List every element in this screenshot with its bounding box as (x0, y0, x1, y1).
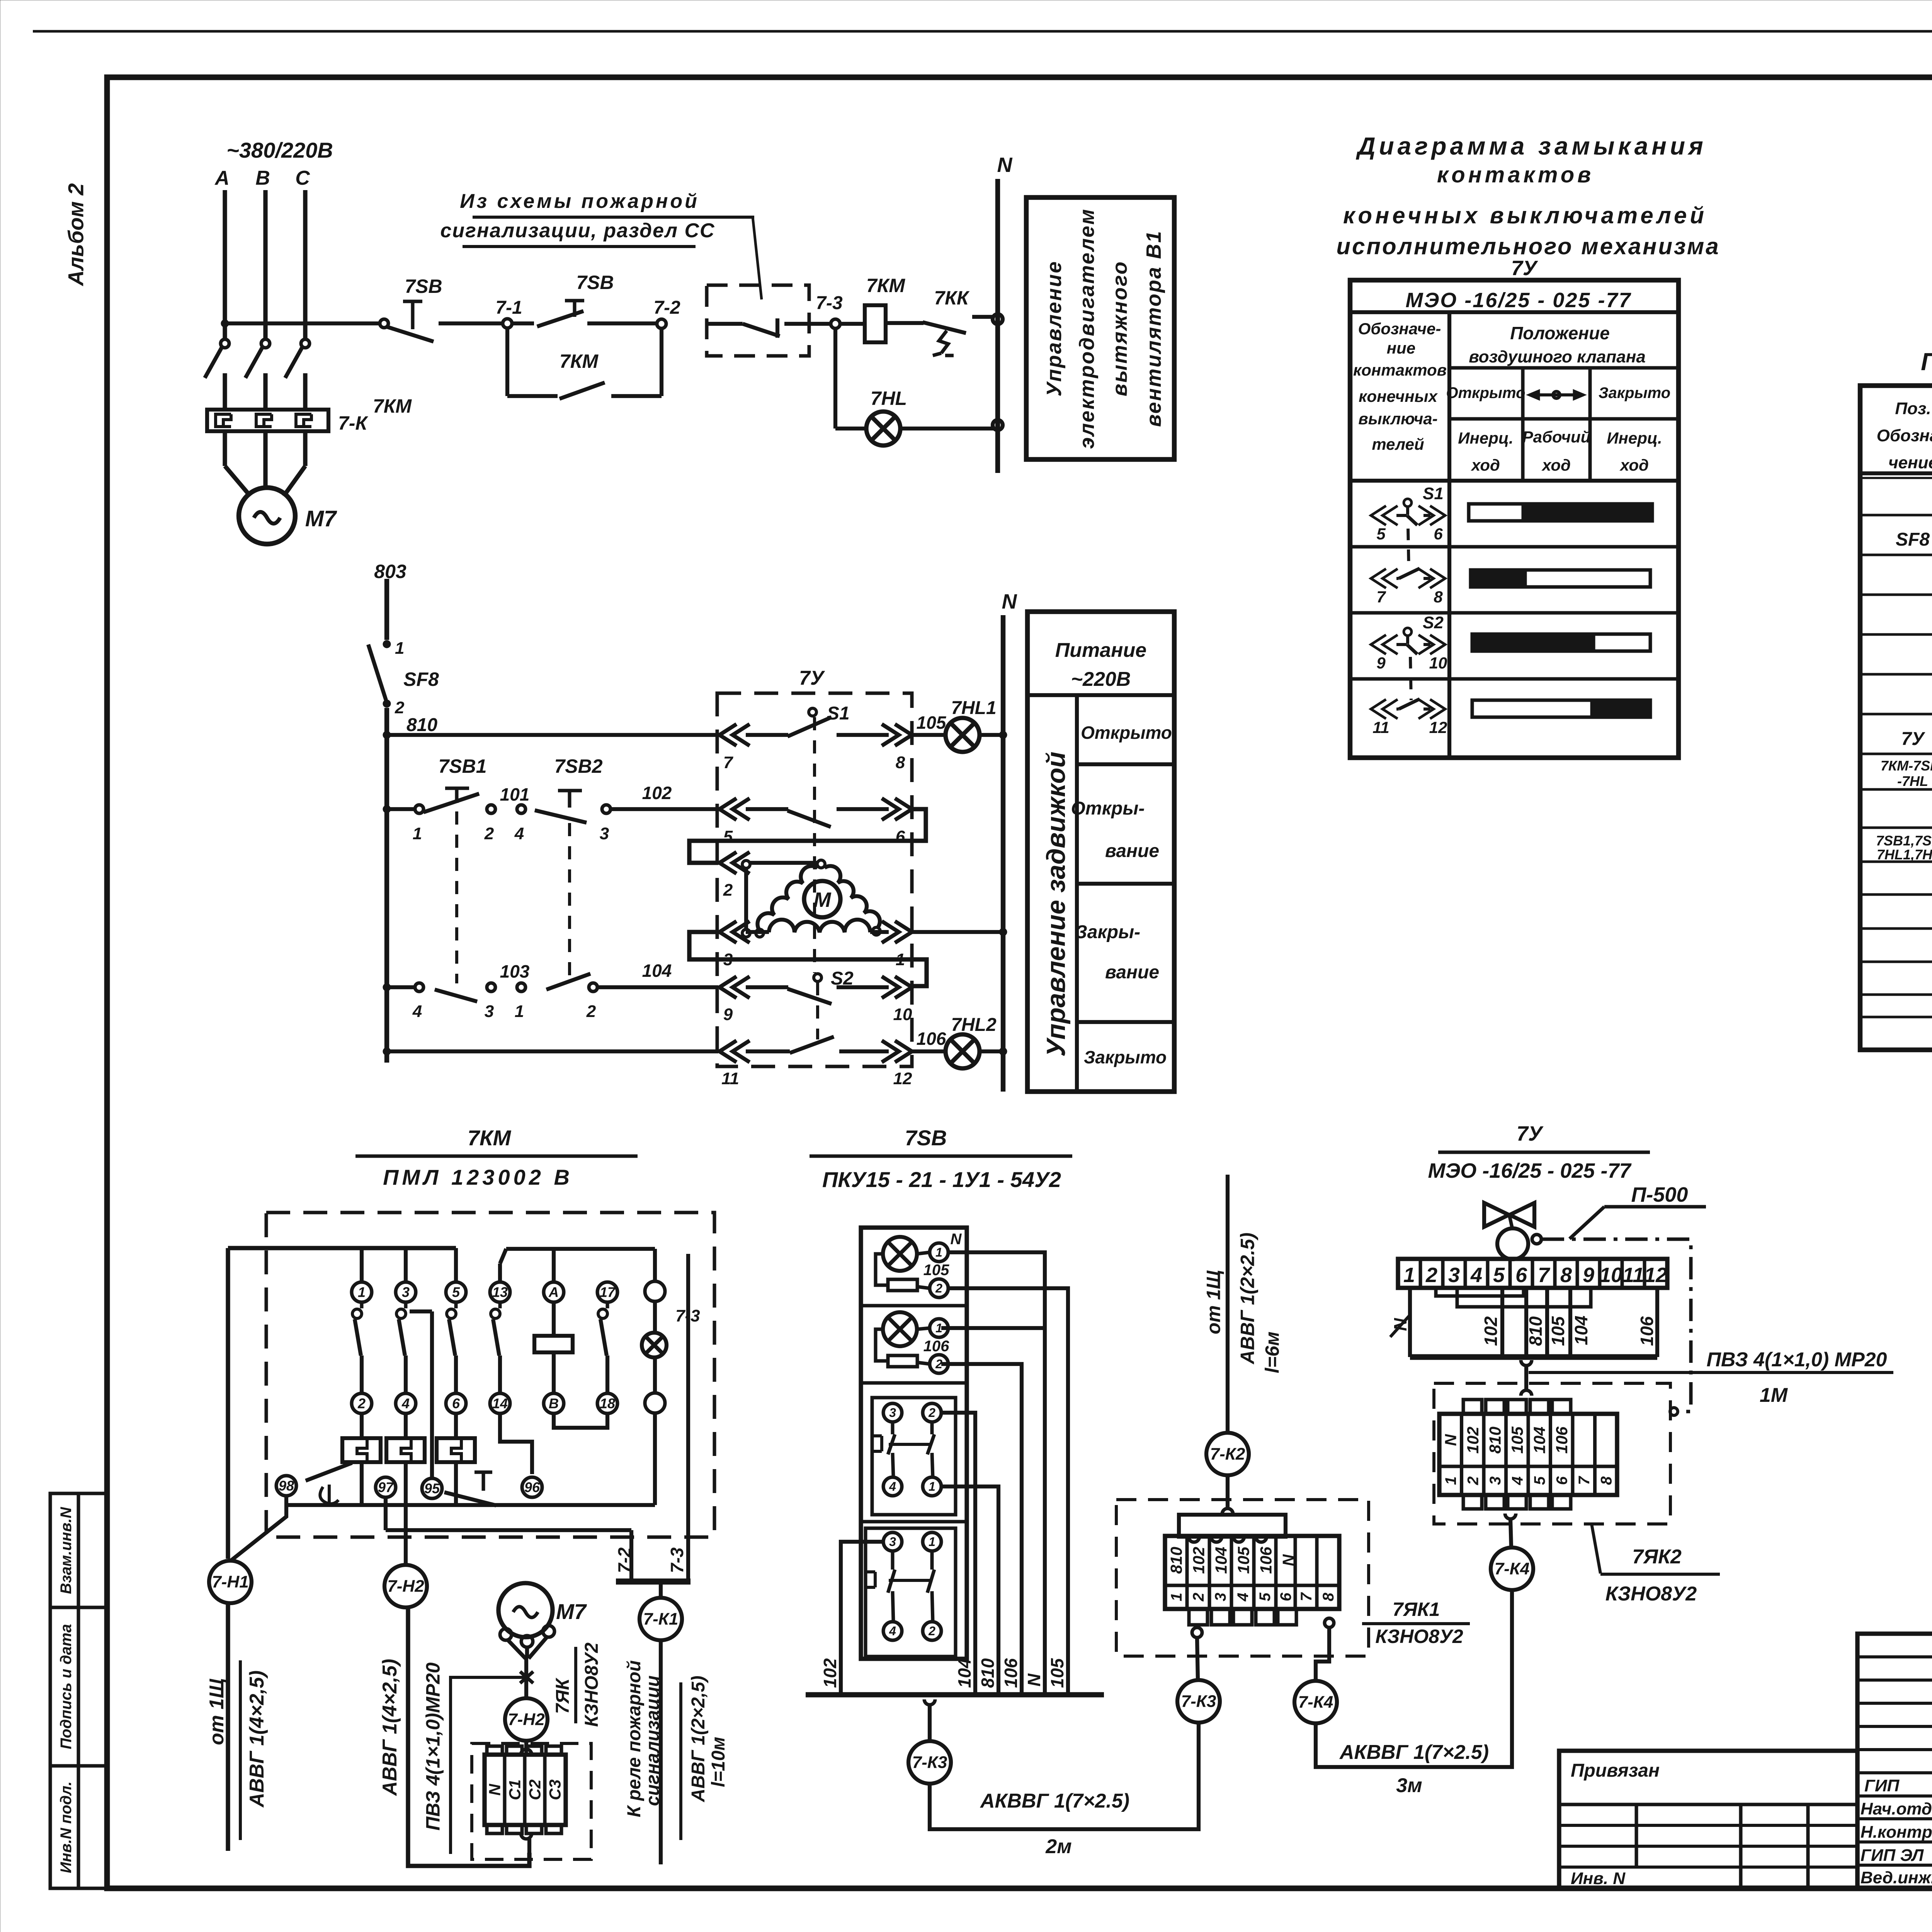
cable label PV3 MP20 (1529, 1349, 1893, 1406)
left margin stamp boxes (50, 1493, 107, 1888)
svg-text:3: 3 (1212, 1593, 1229, 1601)
terminal box 7YAK dashed (472, 1743, 591, 1859)
svg-text:С: С (295, 167, 310, 189)
svg-text:2: 2 (935, 1281, 942, 1295)
svg-text:Поз.: Поз. (1895, 399, 1931, 418)
svg-text:4: 4 (401, 1396, 410, 1412)
svg-text:электродвигателем: электродвигателем (1075, 208, 1099, 449)
wire 7-3 drop (667, 1254, 688, 1582)
svg-text:7КМ: 7КМ (373, 395, 412, 417)
svg-text:4: 4 (889, 1480, 896, 1493)
svg-text:104: 104 (642, 961, 672, 981)
label 7SB first (405, 276, 442, 297)
cable label PV3 (422, 1662, 527, 1854)
terminal 4 (514, 805, 526, 843)
svg-text:-7HL: -7HL (1897, 773, 1928, 789)
cable 7-K3 run (930, 1723, 1199, 1829)
svg-text:1М: 1М (1760, 1384, 1788, 1406)
svg-text:7SB1,7SB2: 7SB1,7SB2 (1876, 833, 1932, 849)
node row4 (383, 983, 391, 991)
svg-text:7КМ: 7КМ (468, 1126, 512, 1150)
svg-text:2: 2 (484, 824, 494, 843)
label 102 (642, 783, 672, 803)
svg-text:1: 1 (935, 1245, 942, 1259)
svg-text:106: 106 (917, 1029, 946, 1049)
node row5 (383, 1048, 391, 1055)
svg-text:АВВГ 1(4×2,5): АВВГ 1(4×2,5) (379, 1659, 401, 1796)
wire 102 drop (820, 1542, 883, 1695)
svg-text:ГИП: ГИП (1864, 1776, 1900, 1795)
cable marker 7-K3 (908, 1741, 951, 1784)
cable marker 7-K4 right (1491, 1548, 1533, 1590)
svg-text:7: 7 (1538, 1264, 1551, 1287)
wire 7-K1 branch (659, 1582, 663, 1598)
wire 104 drop (941, 1413, 975, 1695)
parts table header (1860, 399, 1932, 478)
svg-text:КЗНО8У2: КЗНО8У2 (1605, 1583, 1697, 1605)
terminal 2 (484, 805, 495, 843)
MEO bar row2 (1471, 570, 1650, 587)
svg-text:4: 4 (412, 1002, 422, 1021)
aux contact 7SB2 row4 (515, 961, 718, 1021)
wire 7-N1 down (226, 1604, 230, 1851)
svg-text:6: 6 (452, 1396, 460, 1412)
svg-text:3: 3 (402, 1284, 410, 1300)
svg-text:7ЯК2: 7ЯК2 (1632, 1546, 1682, 1568)
terminal arrows 2 (719, 852, 750, 900)
svg-text:1: 1 (929, 1535, 935, 1549)
wire control to 7SB (225, 321, 380, 325)
svg-text:6: 6 (1515, 1264, 1527, 1287)
svg-text:3: 3 (600, 824, 609, 843)
lamp 7HL2 (946, 1015, 997, 1068)
svg-text:Привязан: Привязан (1571, 1760, 1660, 1781)
motor M7 detail (498, 1583, 587, 1698)
svg-text:810: 810 (978, 1658, 998, 1688)
node row2 (383, 805, 391, 813)
cable label AVVG 7-N2 (379, 1659, 401, 1796)
svg-text:сигнализации, раздел СС: сигнализации, раздел СС (440, 219, 715, 242)
wire 7YAK1 right exit (1316, 1618, 1334, 1680)
mech link S1-S2 dashed (813, 717, 816, 973)
box fan control annotation (1026, 197, 1174, 459)
MEO row dividers (1350, 547, 1679, 679)
svg-text:К реле пожарной: К реле пожарной (624, 1660, 645, 1817)
svg-text:7HL1: 7HL1 (951, 698, 996, 718)
MEO right head text (1449, 323, 1679, 368)
svg-text:Подпись и дата: Подпись и дата (58, 1624, 75, 1749)
svg-text:7SB: 7SB (405, 276, 442, 297)
phase labels A B C (214, 167, 310, 189)
svg-text:SF8: SF8 (403, 668, 439, 690)
node 7-3 (816, 293, 843, 328)
svg-text:l=10м: l=10м (708, 1737, 729, 1787)
label 7KM starter (355, 1126, 638, 1189)
svg-text:11: 11 (1372, 718, 1389, 736)
starter pole 5 (446, 1282, 466, 1393)
svg-text:2: 2 (928, 1406, 935, 1420)
svg-text:104: 104 (954, 1658, 975, 1688)
svg-text:ГИП ЭЛ: ГИП ЭЛ (1861, 1846, 1924, 1865)
svg-text:106: 106 (923, 1338, 949, 1355)
svg-text:7-Н2: 7-Н2 (387, 1577, 424, 1596)
contact block upper (872, 1398, 956, 1515)
svg-text:~380/220В: ~380/220В (226, 138, 333, 162)
svg-text:1: 1 (1168, 1593, 1185, 1601)
svg-text:5: 5 (1493, 1264, 1505, 1287)
lamp 7HL1 (946, 698, 997, 752)
svg-text:ПВЗ 4(1×1,0)МР20: ПВЗ 4(1×1,0)МР20 (422, 1662, 444, 1830)
svg-text:конечных выключателей: конечных выключателей (1343, 202, 1707, 228)
wire 810 strip (1526, 1288, 1546, 1357)
svg-text:7SB1: 7SB1 (438, 755, 486, 777)
svg-text:Взам.инв.N: Взам.инв.N (58, 1507, 75, 1594)
cable label AKVVG 3m (1339, 1741, 1489, 1797)
terminal A (544, 1282, 564, 1302)
svg-text:102: 102 (1190, 1547, 1208, 1574)
svg-text:2: 2 (1465, 1476, 1482, 1485)
svg-text:Открыто: Открыто (1081, 723, 1172, 743)
svg-text:4: 4 (514, 824, 524, 843)
svg-text:101: 101 (500, 784, 530, 804)
svg-text:А: А (214, 167, 230, 189)
svg-text:5: 5 (1531, 1476, 1548, 1485)
svg-text:С2: С2 (526, 1779, 544, 1800)
svg-text:105: 105 (1235, 1546, 1253, 1574)
wire ot 1Shch (1226, 1175, 1230, 1432)
lamp cell 106 (876, 1312, 949, 1373)
svg-text:7SB: 7SB (905, 1126, 947, 1150)
cable break mark (520, 1672, 533, 1683)
svg-text:ПМЛ 123002 В: ПМЛ 123002 В (383, 1165, 573, 1189)
svg-text:96: 96 (524, 1480, 540, 1495)
svg-text:вытяжного: вытяжного (1108, 260, 1131, 396)
svg-text:ПКУ15 - 21 - 1У1 - 54У2: ПКУ15 - 21 - 1У1 - 54У2 (822, 1167, 1061, 1192)
button 7SB2 (535, 755, 611, 843)
svg-text:6: 6 (1277, 1592, 1294, 1601)
svg-text:95: 95 (424, 1481, 440, 1497)
svg-text:2: 2 (357, 1396, 366, 1412)
svg-text:АВВГ 1(4×2,5): АВВГ 1(4×2,5) (246, 1670, 268, 1808)
wire 106 lamp (912, 1029, 946, 1051)
svg-text:102: 102 (1481, 1316, 1501, 1346)
MEO mech link S1 dashed (1408, 529, 1409, 570)
svg-text:М7: М7 (556, 1599, 587, 1624)
svg-text:Инерц.: Инерц. (1607, 429, 1662, 447)
cable marker 7-K3 second (1177, 1680, 1220, 1723)
parts table frame (1860, 386, 1932, 1050)
album label (64, 183, 88, 287)
label 7-K (338, 412, 368, 434)
terminal 17 (597, 1282, 617, 1393)
svg-text:9: 9 (1376, 654, 1386, 672)
MEO bar row1 (1469, 504, 1652, 521)
svg-text:1: 1 (929, 1480, 935, 1493)
svg-text:803: 803 (374, 561, 406, 582)
wire phase C (303, 190, 307, 339)
aux contact 7SB1 row4 (387, 961, 530, 1021)
svg-text:Нач.отд.: Нач.отд. (1861, 1799, 1932, 1818)
svg-text:106: 106 (1553, 1426, 1571, 1454)
label 7YAK (553, 1643, 602, 1727)
svg-text:1: 1 (515, 1002, 524, 1021)
svg-text:1: 1 (395, 639, 404, 658)
parts table row lines (1860, 515, 1932, 1017)
svg-text:7У: 7У (1901, 729, 1925, 749)
svg-text:7: 7 (1576, 1476, 1593, 1485)
svg-text:12: 12 (1644, 1264, 1667, 1287)
svg-text:Закрыто: Закрыто (1599, 384, 1670, 401)
terminal arrows 8 (882, 724, 912, 772)
svg-text:3м: 3м (1396, 1774, 1422, 1797)
cable label ot 1Shch (206, 1660, 268, 1840)
terminal arrows 5 (719, 798, 750, 846)
lamp 7HL (866, 388, 907, 446)
svg-text:102: 102 (642, 783, 672, 803)
svg-text:4: 4 (1235, 1593, 1252, 1602)
svg-text:ход: ход (1541, 456, 1571, 474)
starter pole 1 (352, 1282, 372, 1393)
wire to N (980, 731, 1007, 739)
terminal 18 (597, 1393, 617, 1413)
svg-text:Инв.N подл.: Инв.N подл. (58, 1781, 75, 1873)
fire alarm contact dashed box (707, 285, 831, 356)
box power supply annotation (1027, 612, 1174, 1092)
MEO column divider (1447, 312, 1451, 758)
node 7-2 (653, 298, 680, 328)
leader line to fire contact (753, 217, 762, 299)
svg-text:вание: вание (1105, 841, 1159, 861)
wire phase A (223, 190, 227, 339)
MEO header (1350, 289, 1679, 312)
MEO table frame (1350, 280, 1679, 758)
wire row2 to box (611, 807, 718, 811)
supply label ~380/220V (226, 138, 333, 162)
box 7YAK2 dashed (1434, 1383, 1670, 1524)
svg-text:106: 106 (1257, 1546, 1275, 1574)
svg-text:П-500: П-500 (1631, 1183, 1688, 1206)
lamp cell 105 (876, 1231, 962, 1298)
svg-text:SF8: SF8 (1896, 529, 1930, 550)
svg-text:7-1: 7-1 (495, 298, 522, 318)
svg-text:103: 103 (500, 961, 530, 981)
svg-text:S1: S1 (827, 703, 850, 724)
svg-text:КЗНО8У2: КЗНО8У2 (1375, 1626, 1463, 1647)
svg-text:С3: С3 (546, 1779, 564, 1800)
wire 95 riser (410, 1311, 432, 1478)
svg-text:14: 14 (492, 1396, 508, 1412)
svg-text:вентилятора В1: вентилятора В1 (1142, 230, 1165, 427)
motor M circle (804, 881, 840, 917)
svg-text:7-К: 7-К (338, 412, 368, 434)
wire 105 to lamp (912, 713, 947, 735)
svg-text:3: 3 (485, 1002, 494, 1021)
contactor coil 7KM (840, 275, 923, 342)
svg-text:7У: 7У (1511, 257, 1538, 280)
motor M7 (239, 488, 337, 544)
wire bottom link L1 (286, 1413, 655, 1505)
row 7U (1901, 721, 1932, 754)
aux contact 98-97 (276, 1463, 396, 1504)
svg-text:l=6м: l=6м (1262, 1332, 1283, 1373)
node 810 (383, 731, 391, 739)
MEO subcells open-close (1446, 368, 1679, 481)
terminal strip 12 (1398, 1259, 1667, 1288)
thermal relay 7-K box (207, 410, 328, 431)
svg-text:3: 3 (889, 1406, 896, 1420)
wire 7-K3 to box (1192, 1628, 1202, 1680)
svg-text:S1: S1 (1423, 484, 1444, 503)
valve symbol (1484, 1203, 1541, 1259)
svg-text:ние: ние (1387, 339, 1415, 357)
self-hold contact 7KM branch (507, 328, 662, 399)
wire 105 drop (948, 1288, 1068, 1695)
wire 7-N2 down (408, 1607, 529, 1866)
MEO contact S2 9-10 (1371, 613, 1447, 672)
button 7SB first (NC) (380, 301, 503, 342)
svg-text:9: 9 (1583, 1264, 1594, 1287)
mech link 7SB2 dashed (568, 823, 571, 981)
limit switch S2 (746, 968, 889, 1004)
svg-text:N: N (1279, 1554, 1298, 1566)
svg-text:МЭО -16/25 - 025 -77: МЭО -16/25 - 025 -77 (1405, 289, 1631, 312)
svg-text:6: 6 (896, 827, 905, 846)
wire 7-3 to lamp (835, 328, 866, 429)
svg-text:7У: 7У (799, 667, 825, 689)
wire top bus left (228, 1248, 456, 1559)
svg-text:3: 3 (1448, 1264, 1460, 1287)
jumper 3 to 10 (689, 932, 927, 986)
label 7U detail (1428, 1122, 1650, 1182)
svg-text:Обозначе-: Обозначе- (1358, 320, 1441, 338)
svg-text:Вед.инж.: Вед.инж. (1861, 1868, 1932, 1887)
svg-text:7-К1: 7-К1 (643, 1610, 679, 1629)
svg-text:2: 2 (1190, 1593, 1207, 1602)
strip jumper 3-9 (1457, 1288, 1591, 1307)
svg-text:3: 3 (889, 1535, 896, 1549)
wire N strip (1390, 1288, 1410, 1357)
limit switch S1 (746, 703, 889, 736)
svg-text:7-3: 7-3 (667, 1547, 687, 1573)
svg-text:Управление: Управление (1043, 260, 1066, 396)
svg-text:7: 7 (1376, 588, 1386, 606)
bus bar post (806, 1692, 1104, 1697)
svg-text:N: N (951, 1231, 962, 1248)
motor M winding delta (756, 860, 880, 937)
wire bus 803 lower (384, 708, 389, 1063)
svg-text:8: 8 (1434, 588, 1443, 606)
svg-text:7-К2: 7-К2 (1210, 1445, 1245, 1464)
svg-text:N: N (1024, 1673, 1044, 1687)
cable dash-dot P500 (1542, 1239, 1691, 1415)
wire bus to 7YAK2 (1521, 1360, 1532, 1391)
wire 106 strip (1637, 1288, 1657, 1357)
svg-text:АВВГ 1(2×2.5): АВВГ 1(2×2.5) (1237, 1233, 1259, 1365)
svg-text:2м: 2м (1045, 1835, 1071, 1858)
svg-text:А: А (548, 1284, 559, 1300)
svg-text:12: 12 (1429, 718, 1447, 736)
button 7SB1 (413, 755, 487, 843)
svg-text:N: N (1442, 1434, 1460, 1446)
MEO contact 7-8 (1371, 568, 1445, 606)
svg-text:В: В (549, 1396, 559, 1412)
terminal arrows 7 (719, 724, 750, 772)
svg-text:2: 2 (928, 1624, 935, 1638)
aux contact 95-96 (422, 1472, 542, 1505)
note from fire alarm line2 (440, 219, 715, 247)
svg-text:8: 8 (1560, 1264, 1572, 1287)
label 7SB post (810, 1126, 1072, 1192)
starter pole 13 (490, 1282, 510, 1393)
label 7YAK1 (1362, 1599, 1470, 1647)
wire drops to poles (362, 1248, 456, 1282)
svg-text:2: 2 (586, 1002, 596, 1021)
svg-text:106: 106 (1637, 1316, 1657, 1346)
svg-text:2: 2 (723, 881, 733, 900)
wire phase B (263, 190, 267, 339)
svg-text:10: 10 (1429, 654, 1447, 672)
svg-text:5: 5 (1257, 1592, 1274, 1601)
svg-text:Обозна -: Обозна - (1877, 426, 1932, 445)
svg-text:Открыто: Открыто (1446, 384, 1525, 401)
coil 7KM rect (534, 1302, 573, 1393)
svg-text:чение: чение (1888, 453, 1932, 472)
svg-text:5: 5 (1376, 525, 1386, 543)
strip jumper 2-6 (1436, 1288, 1524, 1296)
svg-text:1: 1 (1442, 1476, 1459, 1485)
wire 7-K1 down (659, 1640, 663, 1864)
wire top bus right (500, 1249, 655, 1282)
mech link S2 dashed (816, 982, 819, 1039)
wire pole4 to 7-N2 (404, 1462, 408, 1565)
svg-text:4: 4 (1470, 1264, 1482, 1287)
jumper 6 to 2 (689, 809, 926, 863)
wire row 810 (387, 733, 718, 737)
node on N bus top (993, 314, 1003, 324)
svg-text:7-Н2: 7-Н2 (508, 1710, 545, 1729)
MEO left head text (1353, 320, 1447, 453)
svg-text:18: 18 (600, 1396, 615, 1412)
wire 102 strip (1481, 1288, 1502, 1357)
wire N bus mid section (1002, 590, 1017, 1092)
cable marker 7-K2 (1206, 1433, 1249, 1475)
wire 105 strip (1547, 1288, 1568, 1357)
label 7KM main (373, 395, 412, 417)
border trim top line (33, 30, 1932, 33)
wire lamp to N (900, 420, 1003, 430)
svg-text:810: 810 (1486, 1427, 1504, 1454)
wire 7-2 drop (614, 1530, 634, 1582)
svg-text:от 1Щ: от 1Щ (1203, 1270, 1225, 1334)
svg-text:6: 6 (1554, 1476, 1571, 1485)
strip bus (1410, 1354, 1657, 1360)
MEO bar row3 (1472, 634, 1650, 651)
svg-text:6: 6 (1434, 525, 1443, 543)
svg-text:Питание: Питание (1055, 639, 1146, 662)
svg-text:7HL: 7HL (871, 388, 907, 409)
terminal arrows 9 (719, 976, 750, 1024)
svg-text:17: 17 (600, 1284, 616, 1300)
terminal circle 7-3 top (645, 1281, 700, 1325)
svg-text:105: 105 (1508, 1426, 1526, 1454)
svg-text:1: 1 (1403, 1264, 1415, 1287)
svg-text:11: 11 (721, 1069, 739, 1088)
wire 98 to 7-N1 (230, 1497, 286, 1561)
svg-text:ПВЗ 4(1×1,0) МР20: ПВЗ 4(1×1,0) МР20 (1707, 1349, 1887, 1371)
wire 810 drop (941, 1486, 998, 1695)
svg-text:11: 11 (1622, 1264, 1644, 1287)
svg-text:2: 2 (1425, 1264, 1437, 1287)
